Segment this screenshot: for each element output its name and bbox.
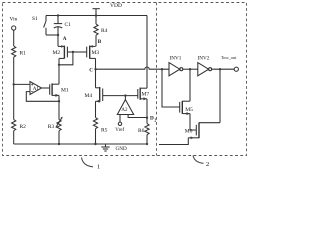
junction INV1 output node <box>189 68 191 70</box>
R3 label <box>48 124 55 130</box>
svg-text:1: 1 <box>97 164 100 171</box>
svg-text:A: A <box>63 36 67 42</box>
wire INV1 output node down to M5 drain <box>189 69 191 101</box>
transistor M2 <box>58 45 73 59</box>
pointer curve to label 2 <box>193 156 204 164</box>
wire node C to INV1 input with hop over feedback wire <box>96 67 170 69</box>
junction M2 source branch <box>58 64 60 66</box>
A1 minus mark <box>31 91 33 93</box>
node A junction <box>57 34 59 36</box>
wire M4 gate to M7 gate <box>103 95 138 97</box>
svg-text:INV2: INV2 <box>198 56 210 62</box>
wire M2 gate to M3 gate <box>73 51 87 53</box>
wire INV2 output to terminal <box>212 68 235 70</box>
svg-text:A2: A2 <box>121 108 128 113</box>
resistor R5 <box>93 118 97 145</box>
svg-text:VDD: VDD <box>110 3 122 9</box>
svg-text:Tosc_out: Tosc_out <box>221 55 237 60</box>
INV2 label <box>198 56 210 62</box>
resistor R4 <box>94 16 98 47</box>
resistor R2 <box>12 120 16 145</box>
R5 label <box>101 127 108 133</box>
inverter INV2 <box>198 63 212 76</box>
svg-text:GND: GND <box>116 146 127 152</box>
junction R5 / ground rail <box>94 143 96 145</box>
wire M5 source down to M6 gate <box>190 114 196 130</box>
node A label <box>63 36 67 42</box>
M2 label <box>53 50 61 56</box>
Vin terminal <box>12 26 16 46</box>
transistor M3 <box>87 45 96 59</box>
op-amp A2 <box>117 96 147 126</box>
VDD label <box>110 3 122 9</box>
node D2 junction <box>146 117 148 119</box>
Tosc_out terminal <box>234 67 238 71</box>
wire INV2 output node down to M6 drain <box>219 69 221 123</box>
junction INV1 input node <box>161 68 163 70</box>
svg-text:C1: C1 <box>65 22 72 28</box>
pointer curve to label 1 <box>82 158 94 167</box>
ground rail wire <box>14 143 147 145</box>
wire branch to gate node <box>59 52 73 65</box>
svg-text:R4: R4 <box>101 28 108 34</box>
svg-text:Vin: Vin <box>10 16 18 22</box>
wire M6 source down to box2 rail <box>159 138 188 145</box>
svg-text:Vref: Vref <box>115 128 124 133</box>
svg-text:R3: R3 <box>48 124 55 130</box>
GND label <box>116 146 127 152</box>
A2 label <box>121 108 128 113</box>
junction A2 output on gate wire <box>124 94 126 96</box>
junction gate wire <box>72 51 74 53</box>
transistor M4 <box>96 87 103 103</box>
wire M7 source down to node D2 <box>146 99 148 118</box>
junction C1 top / rail <box>57 14 59 16</box>
svg-text:M3: M3 <box>92 50 100 56</box>
M6 label <box>185 129 193 135</box>
dashed divider between box 1 and box 2 <box>156 3 158 156</box>
transistor M5 <box>180 101 190 115</box>
transistor M7 <box>138 88 147 101</box>
junction R3 / ground rail <box>58 143 60 145</box>
junction INV2 output node <box>219 68 221 70</box>
svg-text:C: C <box>89 67 93 73</box>
node B label <box>98 39 102 45</box>
svg-text:R5: R5 <box>101 127 108 133</box>
switch S1 <box>44 16 46 36</box>
R2 label <box>20 124 27 130</box>
node D2 label <box>150 116 156 123</box>
Vref label <box>115 128 124 133</box>
S1 label <box>32 16 38 22</box>
svg-text:M6: M6 <box>185 129 193 135</box>
junction feedback / M1 source column <box>58 100 60 102</box>
svg-text:M1: M1 <box>61 87 69 93</box>
M7 label <box>142 92 150 98</box>
resistor R6 <box>145 118 149 144</box>
R1 label <box>20 51 27 57</box>
resistor R1 <box>12 46 16 120</box>
junction A1 + input tap <box>13 83 15 85</box>
M4 label <box>85 93 93 99</box>
svg-text:R6: R6 <box>138 128 145 134</box>
svg-text:S1: S1 <box>32 16 38 22</box>
svg-text:R1: R1 <box>20 51 27 57</box>
svg-text:INV1: INV1 <box>170 56 182 62</box>
R4 label <box>101 28 108 34</box>
junction R6 / ground rail end <box>146 143 148 145</box>
wire M3 source down to node C <box>95 58 97 87</box>
M1 label <box>61 87 69 93</box>
svg-text:M2: M2 <box>53 50 61 56</box>
M5 label <box>185 107 193 113</box>
svg-text:R2: R2 <box>20 124 27 130</box>
junction VDD/rail <box>95 14 97 16</box>
node C junction <box>94 68 96 70</box>
resistor R3 (adjustable) <box>56 117 63 144</box>
R6 label <box>138 128 145 134</box>
wire M4 source to R5 <box>95 101 97 117</box>
transistor M6 <box>188 122 220 139</box>
wire S1 bottom to node A <box>46 34 58 36</box>
C1 label <box>65 22 72 28</box>
node C label <box>89 67 93 73</box>
label 2 <box>206 161 209 168</box>
wire INV1 output to INV2 input <box>183 68 198 70</box>
capacitor C1 <box>54 16 62 36</box>
VDD rail wire <box>46 15 147 17</box>
svg-text:M5: M5 <box>185 107 193 113</box>
Vin label <box>10 16 18 22</box>
ground symbol <box>101 144 109 151</box>
svg-text:M4: M4 <box>85 93 93 99</box>
op-amp A1 <box>14 82 59 102</box>
svg-text:M7: M7 <box>142 92 150 98</box>
VDD supply symbol <box>93 9 100 16</box>
A1 label <box>33 86 40 92</box>
svg-text:D: D <box>150 116 154 122</box>
feedback wire VDD rail down to M7 drain <box>146 16 148 89</box>
A1 plus mark <box>31 83 33 85</box>
svg-text:2: 2 <box>154 118 156 122</box>
INV1 label <box>170 56 182 62</box>
dashed boundary box 1 <box>3 3 247 156</box>
transistor M1 <box>50 83 59 97</box>
M3 label <box>92 50 100 56</box>
Tosc_out label <box>221 55 237 60</box>
svg-text:A1: A1 <box>33 86 40 92</box>
svg-text:2: 2 <box>206 161 209 168</box>
label 1 <box>97 164 100 171</box>
inverter INV1 <box>169 63 183 76</box>
svg-text:B: B <box>98 39 102 45</box>
wire M1 source down to R3 <box>58 95 60 119</box>
wire M2 source down column <box>58 58 60 84</box>
wire INV1 input node down to M5 gate <box>162 69 180 107</box>
wire node A down to M2 drain <box>57 35 59 46</box>
